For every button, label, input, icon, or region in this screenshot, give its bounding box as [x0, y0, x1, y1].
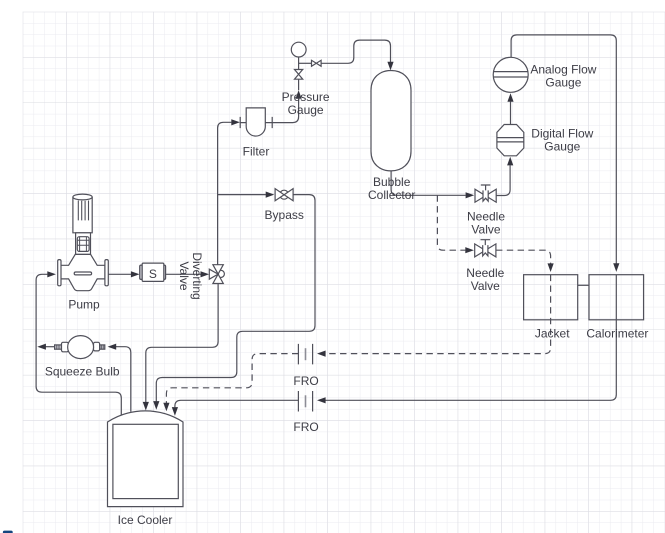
digital flow gauge octagon — [497, 125, 524, 156]
squeeze bulb left nipple — [55, 345, 62, 349]
wire bypass valve down to ice cooler arrow 2 — [156, 195, 315, 402]
wire pump outlet to S sensor — [108, 273, 131, 275]
svg-text:Filter: Filter — [243, 145, 270, 159]
svg-text:FRO: FRO — [293, 374, 318, 388]
wire ice-cooler feed loop: cooler dome to squeeze-bulb/pump supply — [36, 274, 121, 415]
wire dashed needle valve 2 to jacket top — [496, 250, 551, 264]
arrowhead into squeeze bulb right — [108, 344, 117, 350]
needle valve 2 needle plug — [483, 245, 488, 256]
arrowhead into ice cooler arrow 3 — [163, 403, 169, 412]
wire analog flow gauge over to calorimeter — [511, 35, 616, 264]
wire bubble collector to needle valve 1 — [391, 171, 466, 196]
analog flow gauge lines — [493, 72, 528, 77]
digital flow gauge lines — [497, 138, 524, 142]
wire dashed branch from collector line down to needle valve 2 — [437, 195, 465, 250]
arrowhead into bubble collector top — [387, 62, 393, 71]
svg-text:S: S — [149, 267, 157, 281]
arrowhead into ice cooler arrow 2 — [153, 401, 159, 410]
S sensor side tabs — [140, 265, 143, 279]
wire needle valve 1 to digital flow gauge — [496, 165, 510, 195]
arrowhead into bypass valve — [266, 192, 275, 198]
arrowhead into S sensor — [131, 271, 140, 277]
wire digital to analog flow gauge — [510, 102, 512, 125]
wire squeeze bulb outlet to supply riser — [46, 346, 55, 348]
wire gauge tee to shutoff bowtie — [299, 62, 312, 64]
svg-text:NeedleValve: NeedleValve — [466, 266, 504, 293]
squeeze bulb right nipple — [100, 345, 105, 349]
wire dashed jacket through-line down to FRO 1 run — [325, 275, 550, 354]
analog flow gauge dial — [493, 57, 528, 92]
FRO 2 middle plate — [305, 395, 307, 407]
diverting valve triangles — [213, 265, 223, 274]
wire FRO 2 run to ice cooler arrow 4 — [175, 400, 299, 407]
needle valve 1 stem and handle — [481, 185, 491, 196]
filter body — [246, 108, 265, 136]
wire shutoff bowtie to bubble collector top — [321, 40, 391, 63]
diverting valve globe — [217, 270, 224, 277]
pump left flange — [58, 260, 61, 286]
squeeze bulb right connector — [94, 342, 100, 351]
squeeze bulb body — [68, 336, 94, 359]
arrowhead into jacket top — [548, 263, 554, 272]
bypass valve bowtie — [275, 189, 284, 201]
needle valve 1 needle plug — [483, 190, 488, 201]
pressure gauge stem — [298, 57, 300, 70]
calorimeter box — [589, 275, 644, 320]
arrowhead into filter — [231, 119, 240, 125]
wire diverting valve riser to filter inlet — [218, 122, 232, 264]
FRO 2 orifice plates — [298, 391, 312, 412]
filter side ticks — [240, 117, 272, 128]
arrowhead into ice cooler arrow 1 — [143, 402, 149, 411]
svg-text:Ice Cooler: Ice Cooler — [118, 513, 173, 527]
needle valve 1 bowtie — [475, 189, 486, 202]
pump body spool — [61, 254, 105, 290]
svg-text:BubbleCollector: BubbleCollector — [368, 175, 415, 202]
svg-text:FRO: FRO — [293, 420, 318, 434]
wire ice cooler to squeeze bulb inlet — [116, 347, 131, 412]
FRO 1 middle plate — [305, 348, 307, 360]
bypass valve globe — [280, 190, 289, 199]
wire bypass branch from riser — [218, 194, 266, 196]
svg-text:Pump: Pump — [68, 298, 100, 312]
pressure gauge dial — [291, 42, 306, 57]
wire diverting valve down to ice cooler arrow 1 — [146, 284, 218, 403]
wire calorimeter through-line down to FRO 2 run — [325, 275, 616, 401]
wire jacket to calorimeter connector — [578, 284, 589, 286]
pump center slot — [74, 272, 91, 275]
squeeze bulb left connector — [62, 342, 69, 352]
arrowhead into calorimeter top — [613, 263, 619, 272]
pump right flange — [105, 260, 108, 286]
wire pressure gauge stub below shutoff — [298, 79, 300, 90]
pump motor cylinder — [73, 194, 92, 233]
svg-text:Squeeze Bulb: Squeeze Bulb — [45, 365, 120, 379]
needle valve 2 stem and handle — [481, 240, 491, 250]
arrowhead up toward pressure gauge — [296, 90, 302, 99]
wire filter outlet up to pressure gauge — [272, 99, 298, 123]
wire dashed FRO 1 run to ice cooler arrow 3 — [166, 354, 298, 403]
pressure gauge shutoff bowtie — [312, 60, 317, 66]
wire S sensor to diverting valve — [165, 273, 200, 275]
svg-text:Jacket: Jacket — [535, 327, 570, 341]
needle valve 2 bowtie — [475, 244, 486, 257]
ice cooler inner liner — [113, 424, 178, 498]
jacket box — [524, 275, 578, 320]
svg-text:Calorimeter: Calorimeter — [586, 327, 648, 341]
arrowhead into analog flow gauge — [507, 93, 513, 102]
svg-text:PressureGauge: PressureGauge — [282, 90, 330, 117]
svg-text:Bypass: Bypass — [265, 208, 304, 222]
arrowhead into needle valve 1 — [466, 192, 475, 198]
svg-text:NeedleValve: NeedleValve — [467, 209, 505, 236]
arrowhead into digital flow gauge — [507, 157, 513, 166]
arrowhead into diverting valve — [201, 271, 210, 277]
arrowhead on FRO 1 run pointing left — [317, 351, 326, 357]
bubble collector vessel — [371, 71, 411, 171]
arrowhead into needle valve 2 — [465, 247, 474, 253]
arrowhead bulb outlet onto riser — [37, 344, 46, 350]
arrowhead into pump inlet — [47, 271, 56, 277]
ice cooler shell with dome — [108, 411, 184, 507]
FRO 1 orifice plates — [298, 344, 312, 365]
pressure gauge hourglass valve — [295, 70, 303, 75]
arrowhead into ice cooler arrow 4 — [172, 407, 178, 416]
pump bonnet with sight window — [76, 233, 91, 255]
S sensor box — [142, 263, 164, 281]
page marker blue tab — [3, 531, 13, 533]
arrowhead on FRO 2 run pointing left — [317, 397, 326, 403]
